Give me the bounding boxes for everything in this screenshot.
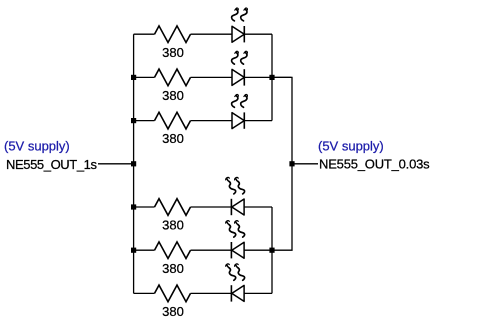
junction left bus row3: [131, 118, 136, 123]
resistor R6: [155, 285, 191, 302]
wire row1 mid: [191, 33, 233, 35]
junction left bus row2: [131, 75, 136, 80]
wire row6 mid: [191, 292, 232, 294]
wire row2 mid: [191, 76, 233, 78]
junction top inner bus row2: [269, 75, 274, 80]
LED D3: [232, 112, 244, 128]
resistor R3: [155, 112, 191, 129]
LED D3 light arrows: [232, 94, 239, 107]
wire row3 left: [134, 120, 155, 122]
LED D5: [231, 242, 244, 258]
LED D6 light arrows: [226, 264, 236, 280]
svg-text:(5V supply): (5V supply): [4, 138, 70, 153]
svg-text:NE555_OUT_1s: NE555_OUT_1s: [6, 157, 97, 172]
LED D5 light arrows: [226, 221, 236, 237]
junction left bus row4: [131, 204, 136, 209]
wire row5 mid: [191, 249, 232, 251]
wire row6 right: [244, 292, 272, 294]
junction outer bus label: [289, 161, 294, 166]
resistor R2: [155, 69, 191, 86]
LED D4 light arrows: [226, 177, 236, 193]
wire row3 right: [244, 120, 272, 122]
LED D6: [231, 285, 244, 301]
svg-text:380: 380: [162, 304, 184, 319]
resistor R1: [155, 26, 191, 43]
LED D2 light arrows: [232, 51, 239, 64]
wire row1 left: [134, 33, 155, 35]
wire row2 left: [134, 76, 155, 78]
wire left label stub: [98, 163, 134, 165]
wire outer bus: [272, 77, 292, 250]
wire row1 right: [244, 33, 272, 35]
svg-text:380: 380: [162, 261, 184, 276]
wire row4 right: [244, 206, 272, 208]
svg-text:380: 380: [162, 218, 184, 233]
resistor R5: [155, 242, 191, 259]
wire row2 right: [244, 76, 291, 78]
wire row5 left: [134, 249, 155, 251]
junction left bus row5: [131, 248, 136, 253]
wire top inner bus: [271, 34, 273, 120]
LED D4: [231, 199, 244, 215]
resistor R4: [155, 199, 191, 216]
wire left bus vertical: [133, 34, 135, 293]
LED D2: [232, 69, 244, 85]
svg-text:(5V supply): (5V supply): [318, 138, 384, 153]
svg-text:380: 380: [162, 45, 184, 60]
wire right label stub: [292, 163, 318, 165]
svg-text:NE555_OUT_0.03s: NE555_OUT_0.03s: [319, 157, 430, 172]
LED D1: [232, 26, 244, 42]
junction left bus label: [131, 161, 136, 166]
wire bottom inner bus: [271, 207, 273, 293]
wire row6 left: [134, 292, 155, 294]
junction bottom inner bus row5: [269, 248, 274, 253]
LED D1 light arrows: [232, 8, 239, 21]
wire row3 mid: [191, 120, 233, 122]
wire row5 right: [244, 249, 272, 251]
svg-text:380: 380: [162, 131, 184, 146]
svg-text:380: 380: [162, 88, 184, 103]
wire row4 left: [134, 206, 155, 208]
wire row4 mid: [191, 206, 232, 208]
